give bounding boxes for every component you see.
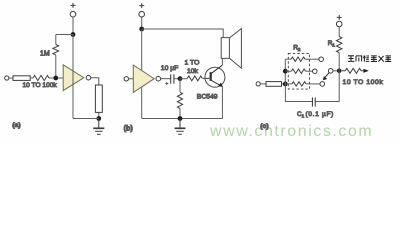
wire resistor to ground node (a) bbox=[98, 112, 100, 118]
contact row3 bbox=[320, 82, 325, 87]
node ground junction (a) bbox=[96, 116, 101, 121]
wire capacitor loop left (c) bbox=[285, 84, 312, 102]
contact row2 bbox=[313, 69, 318, 74]
dashed enclosure R2 bbox=[288, 53, 309, 89]
wire bottom rail (a) bbox=[73, 118, 99, 120]
switch arm with arrow bbox=[323, 73, 329, 81]
arrow to gate input bbox=[363, 69, 368, 73]
resistor (box) input (c) bbox=[266, 82, 282, 87]
svg-text:10 µF: 10 µF bbox=[161, 65, 179, 72]
label plus of capacitor bbox=[165, 82, 168, 85]
svg-text:(b): (b) bbox=[124, 124, 134, 133]
output bubble (a) bbox=[86, 75, 91, 80]
wire bus to row3 bbox=[285, 83, 292, 85]
node input junction (a) bbox=[53, 76, 58, 81]
resistor R2 row1 bbox=[291, 57, 305, 61]
node after capacitor (b) bbox=[178, 76, 183, 81]
svg-text:BC549: BC549 bbox=[197, 94, 218, 101]
input terminal (c) bbox=[256, 82, 260, 86]
node R1 junction (c) bbox=[337, 69, 342, 74]
wire resistor to base bbox=[202, 77, 210, 79]
node junction top (a) bbox=[71, 32, 76, 37]
node input junction (c) bbox=[283, 82, 288, 87]
wire 1M to input node (a) bbox=[55, 55, 57, 78]
inverter gate U1 (b) bbox=[133, 65, 154, 92]
svg-text:1 TO: 1 TO bbox=[185, 60, 200, 67]
input terminal (a) bbox=[5, 76, 9, 80]
wire output to load resistor bbox=[91, 78, 99, 85]
svg-text:1: 1 bbox=[302, 113, 305, 119]
speaker LS1 bbox=[221, 29, 241, 69]
wire terminal to gate (b) bbox=[129, 78, 134, 80]
capacitor C 10uF polarized bbox=[171, 74, 174, 83]
wire terminal to box resistor bbox=[9, 77, 13, 79]
wire node to base resistor bbox=[180, 78, 187, 80]
resistor 1 TO 10k (b) bbox=[187, 76, 202, 81]
svg-text:2: 2 bbox=[298, 47, 301, 53]
resistor load (box) (a) bbox=[95, 85, 102, 112]
svg-text:www.cntronics.com: www.cntronics.com bbox=[209, 123, 373, 140]
wire capacitor to node (b) bbox=[174, 78, 180, 80]
inverter gate U1 (a) bbox=[63, 65, 84, 91]
svg-text:10k: 10k bbox=[187, 68, 199, 75]
wire supply to R1 bbox=[338, 27, 340, 37]
wire pole to node (c) bbox=[333, 70, 339, 72]
node ground junction (b) bbox=[178, 116, 183, 121]
transistor Q1 BC549 bbox=[204, 65, 225, 87]
svg-text:(0.1 µF): (0.1 µF) bbox=[306, 111, 335, 118]
wire box to zigzag bbox=[30, 77, 33, 79]
output bubble (b) bbox=[156, 76, 161, 81]
wire row1 to contact bbox=[305, 58, 319, 60]
wire bus vertical (c) bbox=[284, 59, 286, 84]
wire supply to node (b) bbox=[141, 17, 143, 29]
resistor 10 TO 100k (a) bbox=[33, 75, 49, 80]
wire resistor to gate input bbox=[49, 77, 63, 79]
wire bus to row2 bbox=[285, 70, 291, 72]
svg-text:10 TO 100k: 10 TO 100k bbox=[23, 82, 58, 89]
resistor R2 row3 bbox=[292, 82, 306, 86]
switch pole bbox=[328, 69, 333, 74]
contact row1 bbox=[319, 57, 324, 62]
ground (a) bbox=[93, 119, 104, 135]
resistor 1M bbox=[53, 45, 59, 55]
node bus middle (c) bbox=[283, 69, 288, 74]
wire box to bus node (c) bbox=[282, 83, 286, 85]
wire bus to row1 bbox=[285, 58, 291, 60]
wire R1 to node bbox=[338, 53, 340, 71]
node junction top (b) bbox=[139, 27, 144, 32]
wire output to capacitor bbox=[161, 78, 171, 80]
wire top rail to speaker bbox=[142, 29, 224, 38]
supply terminal V+ (a) bbox=[70, 3, 76, 17]
capacitor C1 0.1uF bbox=[312, 97, 315, 106]
resistor R2 row2 bbox=[292, 69, 306, 73]
resistor R1 bbox=[337, 37, 342, 53]
resistor 10 TO 100k (c) bbox=[342, 68, 363, 73]
wire terminal to box resistor (c) bbox=[260, 83, 266, 85]
ground (b) bbox=[175, 119, 186, 135]
wire speaker to collector bbox=[221, 58, 223, 65]
wire supply rail through gate (a) bbox=[72, 35, 74, 119]
input terminal (b) bbox=[124, 77, 128, 81]
label zhi men de shu ru duan (to gate input, CJK drawn) bbox=[348, 56, 391, 62]
resistor (box) input (a) bbox=[13, 76, 30, 81]
wire emitter to bottom rail (b) bbox=[221, 87, 223, 119]
resistor bias vertical (b) bbox=[177, 92, 182, 108]
wire row3 to contact bbox=[306, 83, 320, 85]
wire down to resistor 1M bbox=[55, 35, 57, 45]
wire supply rail through gate (b) bbox=[141, 29, 143, 119]
wire capacitor loop right (c) bbox=[315, 71, 339, 102]
wire bottom rail (b) bbox=[142, 118, 223, 120]
supply terminal V+ (b) bbox=[139, 3, 145, 17]
svg-text:1M: 1M bbox=[40, 50, 50, 57]
wire supply to node (a) bbox=[72, 17, 74, 35]
supply terminal V+ (c) bbox=[336, 15, 342, 27]
svg-text:10 TO 100k: 10 TO 100k bbox=[343, 79, 384, 86]
wire node to 1M column bbox=[56, 34, 73, 36]
svg-text:(a): (a) bbox=[12, 122, 20, 129]
svg-text:1: 1 bbox=[332, 43, 335, 49]
wire node down to resistor bbox=[179, 79, 181, 92]
wire resistor to bottom node (b) bbox=[179, 108, 181, 118]
wire row2 to contact bbox=[306, 70, 313, 72]
svg-text:(c): (c) bbox=[260, 123, 268, 130]
